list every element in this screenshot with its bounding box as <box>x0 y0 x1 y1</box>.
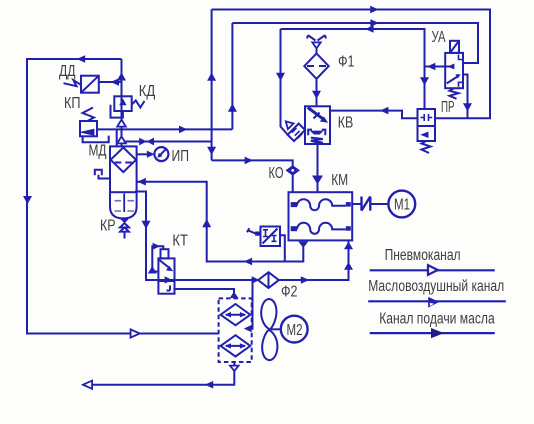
svg-text:М2: М2 <box>287 322 303 339</box>
svg-text:КВ: КВ <box>338 114 354 131</box>
svg-text:ДД: ДД <box>59 63 76 80</box>
svg-text:Ф1: Ф1 <box>338 54 355 71</box>
svg-text:Пневмоканал: Пневмоканал <box>385 247 461 264</box>
svg-text:УА: УА <box>432 29 446 46</box>
svg-text:КП: КП <box>64 95 81 112</box>
svg-text:КО: КО <box>269 165 284 182</box>
svg-text:ИП: ИП <box>172 148 190 165</box>
svg-text:ПР: ПР <box>441 99 455 116</box>
svg-text:КТ: КТ <box>172 233 188 250</box>
svg-text:Канал подачи масла: Канал подачи масла <box>379 310 495 327</box>
svg-text:Ф2: Ф2 <box>281 284 298 301</box>
svg-text:М1: М1 <box>394 197 410 214</box>
svg-text:КР: КР <box>100 218 116 235</box>
svg-text:КМ: КМ <box>331 172 348 189</box>
svg-text:КД: КД <box>139 83 156 100</box>
svg-text:МД: МД <box>89 143 107 160</box>
svg-text:Масловоздушный канал: Масловоздушный канал <box>368 278 504 295</box>
